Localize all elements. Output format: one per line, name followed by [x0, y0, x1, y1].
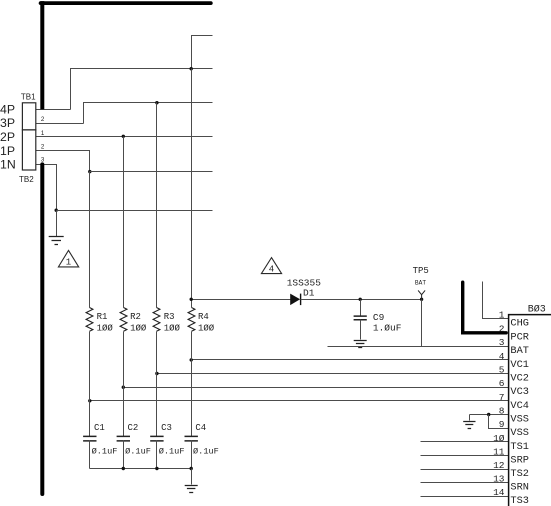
- wire TS3 net (cut at left) to B03 pin 14: [421, 496, 509, 498]
- wire 2P: TB2 pin1 straight bus: [36, 136, 213, 138]
- node junction R1/VC4: [88, 399, 91, 402]
- svg-text:TB1: TB1: [21, 92, 36, 101]
- svg-text:SRP: SRP: [510, 454, 529, 466]
- svg-text:11: 11: [493, 446, 505, 457]
- thick vertical battery bus (upper segment to TB1 pin 1): [40, 1, 44, 109]
- wire column C2: [123, 332, 125, 437]
- node junction 1P/R1 column: [88, 170, 91, 173]
- svg-text:3P: 3P: [0, 116, 15, 130]
- wire TP5 down to BAT net: [421, 300, 423, 347]
- wire VC2 net from R3 to B03: [157, 373, 509, 375]
- svg-text:D1: D1: [303, 287, 315, 298]
- node junction R4/diode: [190, 298, 193, 301]
- ground (VSS): [463, 422, 475, 429]
- svg-text:TS2: TS2: [510, 468, 529, 480]
- resistor R3 100: [153, 308, 160, 332]
- wire column C4: [191, 332, 193, 437]
- node junction 2P/R2 column: [122, 135, 125, 138]
- wire TS1 net (cut at left) to B03 pin 10: [421, 441, 509, 443]
- wire VC4 net from R1 to B03: [90, 400, 509, 402]
- wire 1P: TB2 pin2 stub, down and right bus: [36, 151, 90, 172]
- resistor R1 100: [86, 308, 93, 332]
- wire R4 column vertical: [191, 69, 193, 308]
- svg-text:Ø.1uF: Ø.1uF: [92, 446, 118, 456]
- wire column C3: [156, 332, 158, 437]
- node junction 1N/ground: [55, 209, 58, 212]
- svg-text:C9: C9: [373, 312, 385, 323]
- svg-text:Ø.1uF: Ø.1uF: [193, 446, 219, 456]
- svg-text:4: 4: [499, 351, 505, 362]
- svg-text:3: 3: [499, 337, 505, 348]
- svg-text:1P: 1P: [0, 144, 15, 158]
- svg-text:1: 1: [66, 257, 71, 267]
- test point TP5: [418, 290, 425, 299]
- node junction bus/C4: [190, 467, 193, 470]
- diode output wire to C9 and TP5: [301, 299, 422, 301]
- diode D1 1SS355 wire (anode side): [192, 299, 291, 301]
- svg-text:SRN: SRN: [510, 482, 529, 494]
- svg-text:VC2: VC2: [510, 373, 529, 385]
- wire R3 column vertical: [156, 103, 158, 308]
- svg-text:14: 14: [493, 487, 505, 498]
- node junction VSS8/VSS9: [487, 413, 490, 416]
- thick horizontal battery bus (top): [41, 1, 211, 5]
- svg-text:5: 5: [499, 365, 505, 376]
- svg-text:8: 8: [499, 406, 505, 417]
- capacitor C4 0.1uF: [185, 436, 198, 441]
- svg-text:BAT: BAT: [415, 279, 426, 286]
- svg-text:VSS: VSS: [510, 414, 529, 426]
- svg-text:1.ØuF: 1.ØuF: [373, 323, 402, 334]
- node junction bus/C3: [155, 467, 158, 470]
- thick wire PCR net to B03 pin 2: [463, 282, 507, 333]
- svg-text:4P: 4P: [0, 103, 15, 117]
- wire VC3 net from R2 to B03: [124, 387, 509, 389]
- svg-text:C1: C1: [94, 423, 105, 433]
- wire column C1: [89, 332, 91, 437]
- svg-text:BAT: BAT: [510, 345, 529, 357]
- wire SRN net (cut at left) to B03 pin 13: [421, 482, 509, 484]
- svg-text:1: 1: [499, 310, 505, 321]
- svg-text:2P: 2P: [0, 130, 15, 144]
- wire 1N: TB2 pin3 stub, down and right bus: [36, 165, 57, 211]
- warning triangle note 1: [58, 250, 78, 267]
- node junction 3P/R3 column: [155, 101, 158, 104]
- svg-text:7: 7: [499, 392, 505, 403]
- wire BAT net to B03 pin 3: [328, 346, 509, 348]
- wire 3P: TB1 pin2 stub, up and right bus: [36, 123, 84, 125]
- node junction R2/VC3: [122, 386, 125, 389]
- resistor R2 100: [120, 308, 127, 332]
- ground (1N): [49, 237, 64, 245]
- svg-text:TS1: TS1: [510, 441, 529, 453]
- diode D1 symbol: [290, 294, 300, 306]
- svg-text:C4: C4: [195, 423, 206, 433]
- svg-text:R1: R1: [97, 312, 108, 322]
- wire bottom bus joining C1-C4: [90, 468, 192, 470]
- svg-text:PCR: PCR: [510, 331, 529, 343]
- svg-text:1N: 1N: [0, 157, 16, 171]
- wire 1N down to ground: [56, 211, 58, 237]
- wire VC1 net from R4 to B03: [192, 359, 509, 361]
- svg-text:R3: R3: [164, 312, 175, 322]
- svg-text:VSS: VSS: [510, 427, 529, 439]
- node junction R3/VC2: [155, 372, 158, 375]
- wire VSS pin9 jog: [489, 415, 509, 429]
- wire 4P: TB1 pin1 stub, up and right bus: [36, 109, 71, 111]
- resistor R4 100: [188, 308, 195, 332]
- svg-text:CHG: CHG: [510, 318, 529, 330]
- thick vertical battery bus (lower segment from TB2 pin 3 / 1N): [40, 164, 44, 494]
- svg-text:1: 1: [41, 130, 45, 137]
- svg-text:1Ø: 1Ø: [493, 433, 505, 444]
- svg-text:TS3: TS3: [510, 495, 529, 506]
- connector TB2 body: [22, 130, 35, 170]
- svg-text:Ø.1uF: Ø.1uF: [125, 446, 151, 456]
- capacitor C9 1.0uF: [360, 300, 362, 317]
- svg-text:12: 12: [493, 460, 505, 471]
- svg-text:TP5: TP5: [413, 266, 429, 276]
- svg-text:13: 13: [493, 474, 505, 485]
- capacitor C1 0.1uF: [83, 436, 96, 441]
- svg-text:3: 3: [41, 157, 45, 164]
- svg-text:2: 2: [499, 323, 505, 334]
- svg-text:9: 9: [499, 419, 505, 430]
- svg-text:1ØØ: 1ØØ: [198, 324, 215, 334]
- capacitor C3 0.1uF: [150, 436, 163, 441]
- connector B03 body: [509, 315, 551, 506]
- node junction R4/VC1: [190, 358, 193, 361]
- svg-text:4: 4: [269, 264, 274, 274]
- svg-text:VC3: VC3: [510, 386, 529, 398]
- wire R2 column vertical: [123, 137, 125, 308]
- node junction TP5: [420, 298, 423, 301]
- svg-text:6: 6: [499, 378, 505, 389]
- node junction C9: [359, 298, 362, 301]
- svg-text:R4: R4: [198, 312, 209, 322]
- svg-text:BØ3: BØ3: [528, 303, 546, 315]
- svg-text:VC4: VC4: [510, 400, 529, 412]
- capacitor C2 0.1uF: [117, 436, 130, 441]
- svg-text:1ØØ: 1ØØ: [97, 324, 114, 334]
- wire SRP net (cut at left) to B03 pin 11: [421, 455, 509, 457]
- node junction bus/C2: [122, 467, 125, 470]
- svg-text:2: 2: [41, 116, 45, 123]
- svg-text:C2: C2: [128, 423, 139, 433]
- connector TB1 body: [22, 103, 35, 130]
- wire net 4P top branch (cut at right): [192, 36, 213, 69]
- warning triangle note 4: [261, 258, 281, 274]
- wire VSS pin8 stub and ground: [470, 414, 509, 416]
- svg-text:TB2: TB2: [19, 175, 34, 184]
- wire CHG net (cut at top) to B03 pin 1: [483, 282, 509, 319]
- wire down to ground: [191, 469, 193, 485]
- wire TS2 net (cut at left) to B03 pin 12: [421, 469, 509, 471]
- svg-text:2: 2: [41, 143, 45, 150]
- svg-text:Ø.1uF: Ø.1uF: [159, 446, 185, 456]
- svg-text:1ØØ: 1ØØ: [164, 324, 181, 334]
- svg-text:1ØØ: 1ØØ: [130, 324, 147, 334]
- svg-text:VC1: VC1: [510, 359, 529, 371]
- svg-text:C3: C3: [161, 423, 172, 433]
- node junction 4P/R4 column: [190, 67, 193, 70]
- ground (C9): [354, 341, 367, 348]
- svg-text:R2: R2: [130, 312, 141, 322]
- ground (C bank): [185, 486, 198, 493]
- wire R1 column vertical: [89, 172, 91, 308]
